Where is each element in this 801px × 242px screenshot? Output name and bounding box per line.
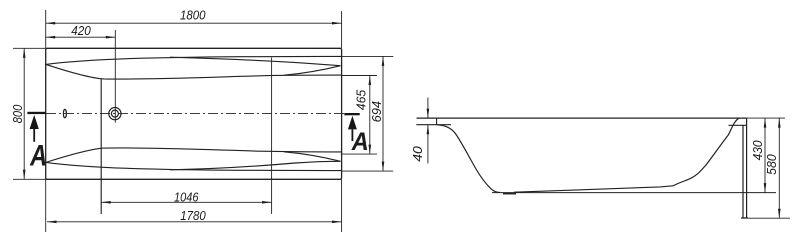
side view foot mark: [503, 193, 516, 195]
side view rim bottom right segment: [729, 124, 747, 126]
extension line 1780 right: [341, 179, 343, 232]
svg-text:A: A: [351, 128, 369, 156]
svg-text:420: 420: [71, 24, 91, 38]
rim wedge branch top-right: [284, 66, 341, 76]
extension line 694 bottom: [342, 170, 393, 172]
section marker left: bar, arrow, letter A: [27, 112, 46, 142]
tub outer rectangle (top view): [46, 48, 342, 179]
side view left wall profile: [437, 125, 500, 193]
svg-text:A: A: [29, 140, 47, 173]
svg-text:580: 580: [765, 154, 779, 175]
arrow 420 right: [106, 36, 116, 39]
apron left edge: [742, 125, 744, 218]
drain inner circle: [111, 110, 118, 117]
interior ledge contour top: [46, 64, 342, 79]
svg-text:1800: 1800: [180, 9, 206, 23]
rim inner straight line bottom: [46, 162, 342, 170]
centerline (dash-dot): [46, 113, 344, 115]
rim wavy contour bottom: [170, 161, 341, 170]
rim wavy contour top: [170, 57, 341, 65]
arrow 1780 right: [332, 221, 342, 224]
dimension line 420: [46, 36, 116, 38]
overflow ellipse: [63, 109, 66, 117]
arrow 420 left: [46, 36, 56, 39]
svg-text:800: 800: [11, 105, 25, 124]
section marker right: bar, arrow, letter A: [344, 113, 359, 141]
arrow 1800 right: [332, 22, 342, 25]
svg-text:1780: 1780: [180, 209, 206, 223]
dimension line 800: [23, 48, 25, 179]
arrow 465 bottom: [369, 145, 372, 155]
dimension line 1046: [101, 201, 271, 203]
dimension line 40 upper: [427, 98, 429, 119]
apron bottom cap: [741, 217, 748, 219]
arrow 800 top: [23, 48, 26, 58]
arrow 40 lower: [427, 125, 430, 135]
arrow 40 upper: [427, 109, 430, 119]
dimension line 1780: [47, 221, 342, 223]
arrow 800 bottom: [23, 170, 26, 180]
side view rim bottom left segment: [416, 124, 451, 126]
dimension line 465: [369, 76, 371, 155]
dimension line 430: [764, 118, 766, 193]
arrow 465 top: [369, 76, 372, 86]
arrow 430 bottom: [764, 183, 767, 193]
extension line 580 bottom: [741, 217, 790, 219]
drain outer circle: [109, 108, 121, 120]
extension line left edge up: [45, 10, 47, 48]
extension line 800 top: [13, 47, 46, 49]
dimension line 1800: [46, 22, 342, 24]
extension line right edge up: [341, 11, 343, 48]
arrow 1780 left: [47, 221, 57, 224]
arrow 1046 left: [101, 201, 111, 204]
dimension line 40 lower: [427, 125, 429, 164]
extension line 465 bottom: [342, 153, 377, 155]
extension line 1046 left: [100, 79, 102, 214]
svg-text:694: 694: [370, 101, 384, 123]
svg-text:430: 430: [751, 140, 765, 160]
arrow 1800 left: [46, 22, 56, 25]
extension line 694 top: [342, 55, 393, 57]
side view right wall profile: [673, 118, 739, 186]
rim inner straight line top: [46, 56, 342, 64]
svg-text:465: 465: [354, 89, 368, 110]
svg-text:40: 40: [410, 146, 425, 162]
rim wedge branch bottom-right: [284, 152, 341, 162]
interior ledge contour bottom: [46, 148, 342, 163]
extension line 465 top: [342, 75, 377, 77]
side view rim top extension right: [747, 117, 785, 119]
dimension line 694: [382, 56, 384, 171]
extension line 800 bottom: [13, 178, 46, 180]
arrow 580 top: [778, 118, 781, 128]
svg-text:1046: 1046: [174, 190, 199, 204]
arrow 580 bottom: [778, 209, 781, 219]
dimension line 580: [778, 118, 780, 218]
arrow 430 top: [764, 118, 767, 128]
extension line 1780 left: [45, 179, 47, 232]
arrow 694 top: [382, 56, 385, 66]
extension line drain vertical: [114, 30, 116, 123]
apron right edge: [746, 118, 748, 218]
arrow 694 bottom: [382, 162, 385, 172]
side view bottom straight line: [492, 192, 776, 194]
side view rim left end cap: [436, 118, 438, 125]
side view rim top line: [417, 117, 747, 119]
arrow 1046 right: [262, 201, 272, 204]
extension line 1046 right: [271, 58, 273, 215]
side view interior floor sloping line: [514, 186, 673, 192]
